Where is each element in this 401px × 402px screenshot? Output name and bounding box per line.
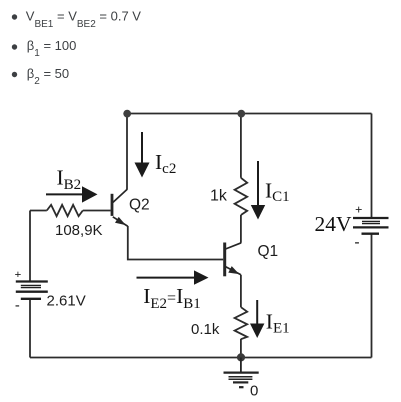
ground bbox=[224, 358, 259, 388]
current arrow Ic2 bbox=[135, 132, 150, 178]
battery B1 24V bbox=[353, 218, 389, 234]
wire Q2 collector to top rail bbox=[126, 114, 128, 190]
transistor Q2 bbox=[112, 189, 128, 226]
wire 1k to Q1 collector bbox=[240, 215, 242, 243]
node junction top-middle bbox=[237, 110, 245, 118]
svg-text:1k: 1k bbox=[210, 188, 228, 205]
svg-text:β1 = 100: β1 = 100 bbox=[27, 38, 77, 59]
wire base branch to resistor bbox=[30, 210, 47, 212]
svg-text:VBE1 = VBE2 = 0.7 V: VBE1 = VBE2 = 0.7 V bbox=[26, 9, 141, 31]
svg-text:IC1: IC1 bbox=[265, 179, 290, 205]
wire Q2 emitter down and to Q1 base bbox=[128, 226, 223, 260]
svg-text:24V: 24V bbox=[315, 212, 353, 236]
wire right rail lower bbox=[371, 234, 373, 358]
svg-text:IE2=IB1: IE2=IB1 bbox=[143, 284, 201, 312]
wire right rail upper bbox=[371, 114, 373, 218]
svg-text:β2 = 50: β2 = 50 bbox=[27, 66, 69, 87]
svg-text:108,9K: 108,9K bbox=[55, 222, 103, 239]
svg-text:IB2: IB2 bbox=[57, 165, 82, 193]
svg-text:IE1: IE1 bbox=[266, 309, 290, 336]
wire top rail bbox=[124, 113, 372, 115]
current arrow IB2 bbox=[46, 186, 98, 202]
wire left rail upper bbox=[29, 211, 31, 282]
svg-text:+: + bbox=[15, 267, 22, 281]
svg-text:Ic2: Ic2 bbox=[155, 150, 176, 177]
svg-text:0: 0 bbox=[250, 382, 258, 399]
bullet dot 1 bbox=[12, 14, 17, 19]
current arrow IE1 bbox=[250, 300, 264, 338]
current arrow IE2=IB1 bbox=[137, 270, 209, 284]
wire 0.1k to bottom rail bbox=[240, 339, 242, 358]
resistor R1 108,9K zigzag bbox=[47, 205, 83, 216]
node junction top-left bbox=[123, 110, 131, 118]
wire resistor to Q2 base bbox=[83, 210, 111, 212]
wire left rail lower bbox=[29, 299, 31, 358]
svg-text:-: - bbox=[355, 235, 360, 251]
wire top rail to 1k resistor bbox=[240, 114, 242, 178]
svg-text:2.61V: 2.61V bbox=[47, 293, 86, 310]
wire Q1 emitter down to 0.1k bbox=[240, 275, 242, 307]
resistor R3 0.1k zigzag bbox=[235, 307, 248, 339]
wire bottom rail bbox=[30, 357, 372, 359]
battery B2 2.61V bbox=[16, 282, 48, 299]
current arrow IC1 bbox=[251, 161, 265, 220]
svg-text:0.1k: 0.1k bbox=[191, 321, 220, 338]
transistor Q1 bbox=[225, 243, 242, 277]
resistor R2 1k zigzag bbox=[235, 178, 248, 215]
svg-text:Q1: Q1 bbox=[258, 243, 279, 260]
node junction emitter-ground bbox=[237, 353, 245, 361]
bullet dot 2 bbox=[12, 44, 17, 49]
svg-text:-: - bbox=[15, 298, 20, 313]
bullet dot 3 bbox=[12, 72, 17, 77]
svg-text:+: + bbox=[355, 202, 362, 217]
svg-text:Q2: Q2 bbox=[129, 197, 150, 214]
